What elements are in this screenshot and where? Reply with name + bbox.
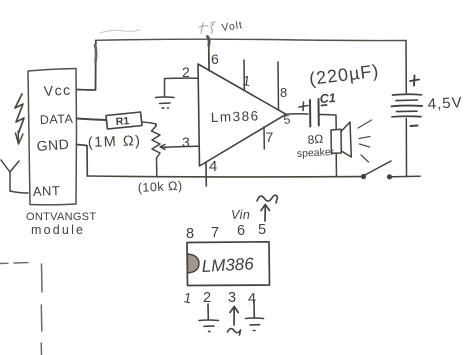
svg-text:module: module xyxy=(31,223,85,237)
svg-text:GND: GND xyxy=(36,136,70,154)
wire pin3 from pot xyxy=(164,145,199,148)
svg-text:6: 6 xyxy=(237,223,245,239)
wire pin4 xyxy=(205,162,207,186)
svg-text:8: 8 xyxy=(280,85,287,100)
svg-text:(1M Ω): (1M Ω) xyxy=(88,133,142,151)
svg-text:5: 5 xyxy=(258,222,266,238)
svg-text:1: 1 xyxy=(242,72,252,89)
wire GND to bottom rail xyxy=(77,145,88,177)
svg-text:Volt: Volt xyxy=(221,19,244,34)
wire pin6 xyxy=(208,41,210,71)
wire pin8 stub xyxy=(277,62,280,110)
antenna lightning bolt xyxy=(15,94,24,144)
speaker sound waves xyxy=(358,120,372,162)
svg-text:Vin: Vin xyxy=(231,208,250,222)
svg-text:1: 1 xyxy=(182,289,193,306)
label + battery xyxy=(410,76,419,86)
wire bottom rail xyxy=(87,175,363,178)
faint +5 Volt scribble xyxy=(199,22,215,33)
svg-text:8: 8 xyxy=(186,226,194,242)
wire speaker to bottom rail xyxy=(335,153,337,176)
svg-text:speaker: speaker xyxy=(297,146,335,160)
wire blob on Vcc riser xyxy=(95,45,96,62)
svg-text:6: 6 xyxy=(211,51,219,67)
switch S1 pole dot xyxy=(361,174,366,179)
ground bar pin2 xyxy=(199,320,219,332)
label - battery xyxy=(411,125,418,128)
switch throw dot xyxy=(387,174,392,179)
svg-text:3: 3 xyxy=(228,290,236,306)
resistor R1 box xyxy=(106,112,142,129)
wire Vcc to top rail xyxy=(77,41,96,91)
svg-text:4,5V: 4,5V xyxy=(427,94,463,113)
svg-text:Vcc: Vcc xyxy=(43,82,72,99)
wire top rail xyxy=(96,39,407,40)
ground at pin2 xyxy=(156,97,175,108)
DIP notch xyxy=(188,254,200,273)
wire pin5 output xyxy=(286,113,308,115)
wire pin1 stub xyxy=(243,60,245,90)
svg-text:7: 7 xyxy=(211,225,219,241)
ground bar pin4 xyxy=(246,318,264,331)
wire R1 to pot xyxy=(142,122,156,126)
svg-text:Lm386: Lm386 xyxy=(211,108,260,125)
antenna feed Y xyxy=(1,160,28,193)
switch lever xyxy=(364,161,391,176)
plus sign at C1 xyxy=(299,102,308,111)
capacitor C1 plate left xyxy=(309,100,311,127)
svg-text:ONTVANGST: ONTVANGST xyxy=(26,211,96,223)
wire battery top riser xyxy=(405,41,407,94)
wire C1 to speaker xyxy=(319,115,336,130)
svg-text:(220µF): (220µF) xyxy=(308,61,380,89)
potentiometer 10k body xyxy=(152,126,161,176)
sine squiggle above pin5 xyxy=(257,195,278,203)
svg-text:ANT: ANT xyxy=(33,183,61,199)
svg-text:3: 3 xyxy=(182,134,190,150)
svg-text:DATA: DATA xyxy=(40,112,74,127)
svg-text:8Ω: 8Ω xyxy=(307,132,324,147)
wire switch to battery xyxy=(392,175,420,178)
speaker LS1 body xyxy=(331,129,341,153)
module box xyxy=(28,69,77,205)
svg-text:C1: C1 xyxy=(319,91,336,106)
svg-text:4: 4 xyxy=(209,158,217,175)
speaker cone xyxy=(341,122,351,157)
pot wiper arrow xyxy=(160,145,166,150)
IC pinout DIP body xyxy=(187,242,270,286)
wire data to R1 xyxy=(77,119,107,121)
dashed margin vertical xyxy=(40,264,43,355)
svg-text:LM386: LM386 xyxy=(201,254,254,276)
dashed margin horizontal xyxy=(0,262,28,265)
svg-text:(10k Ω): (10k Ω) xyxy=(137,179,182,195)
signal arrow pin3 xyxy=(230,307,238,326)
svg-text:7: 7 xyxy=(266,129,274,145)
signal arrow above pin5 xyxy=(261,205,270,222)
sine squiggle below pin3 xyxy=(228,329,241,335)
ground lead pin2 xyxy=(207,304,209,320)
svg-text:2: 2 xyxy=(182,64,190,80)
svg-text:R1: R1 xyxy=(115,115,129,128)
wire pin2 to ground xyxy=(165,78,199,96)
minus sign at C1 xyxy=(322,104,327,107)
faint pencil smudge left xyxy=(100,30,140,33)
wire pin7 stub xyxy=(263,127,265,149)
capacitor C1 plate right xyxy=(318,99,320,126)
svg-text:2: 2 xyxy=(203,290,211,306)
wire battery bottom riser xyxy=(405,119,407,177)
junction blob pin6 xyxy=(208,37,210,46)
op-amp U1 LM386 triangle xyxy=(198,64,286,166)
ground lead pin4 xyxy=(253,300,255,318)
battery BT1 plates xyxy=(392,94,423,117)
